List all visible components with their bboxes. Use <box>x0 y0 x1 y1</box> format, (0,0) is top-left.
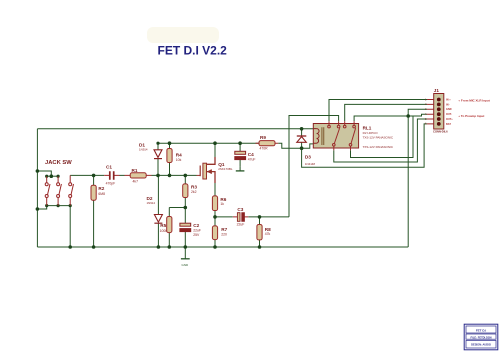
svg-text:R1: R1 <box>132 168 138 173</box>
wire relay B1 to J1 pin5 <box>334 119 427 162</box>
node D1 signal <box>156 174 160 178</box>
svg-text:FET D.I: FET D.I <box>476 328 486 332</box>
svg-text:2k2: 2k2 <box>191 190 197 194</box>
resistor R7 <box>212 226 227 240</box>
svg-text:C1: C1 <box>106 165 112 170</box>
wire R9 right step <box>278 143 313 148</box>
node R2 top <box>92 174 96 178</box>
wire ground symbol stub C2 <box>184 247 186 259</box>
node bus R2 <box>92 245 96 249</box>
svg-text:BAT: BAT <box>446 123 451 126</box>
relay levers <box>334 128 355 144</box>
svg-text:CONN-DIL6: CONN-DIL6 <box>433 130 448 134</box>
relay RL1 <box>313 121 394 150</box>
svg-text:DESIGN: AUDIO: DESIGN: AUDIO <box>471 343 491 347</box>
node R8 top <box>258 215 262 219</box>
wire relay T3 to J1 pin2 <box>345 104 427 121</box>
wire C3 to R8 node <box>248 216 289 218</box>
wire top outer rail <box>37 128 313 130</box>
node C4 rail <box>238 141 242 145</box>
svg-text:FILE: FETDI.DSN: FILE: FETDI.DSN <box>471 335 492 339</box>
wire relay B2 loop <box>351 116 414 158</box>
svg-text:470R: 470R <box>260 147 269 151</box>
wire switch bottom link <box>47 205 70 207</box>
svg-text:TXS-12V PANASONIC: TXS-12V PANASONIC <box>363 145 394 149</box>
svg-text:10k: 10k <box>176 158 182 162</box>
node D3 bottom <box>300 146 304 150</box>
svg-text:4k7: 4k7 <box>133 180 139 184</box>
node D3 top <box>300 127 304 131</box>
resistor R8 <box>257 225 271 240</box>
svg-text:R2: R2 <box>98 186 104 191</box>
svg-text:FET D.I V2.2: FET D.I V2.2 <box>158 43 228 57</box>
svg-text:R5: R5 <box>160 223 166 228</box>
node bus SW3 <box>68 245 72 249</box>
svg-text:GND: GND <box>182 263 190 267</box>
wire ground bus <box>37 246 408 248</box>
svg-text:22uF: 22uF <box>237 222 245 226</box>
svg-text:C4: C4 <box>248 152 254 157</box>
node bus R8 <box>258 245 262 249</box>
svg-text:TXS-12V PANASONIC: TXS-12V PANASONIC <box>363 135 394 139</box>
svg-text:D3: D3 <box>305 155 311 160</box>
transistor Q1 (JFET) <box>197 157 233 183</box>
wire Q1 source drop <box>214 183 216 196</box>
resistor R2 <box>91 185 105 200</box>
node Q1 drain rail <box>213 141 217 145</box>
svg-text:JACK SW: JACK SW <box>45 160 72 166</box>
svg-text:1k: 1k <box>220 202 224 206</box>
svg-text:25V: 25V <box>193 233 200 237</box>
resistor R4 <box>167 149 182 163</box>
ground symbol (C2 / main) <box>181 259 190 267</box>
J1 pin names <box>446 98 453 125</box>
svg-text:IN +: IN + <box>446 98 451 101</box>
connector J1 <box>425 88 453 134</box>
svg-text:IN -: IN - <box>446 103 450 106</box>
J1 pin stubs <box>427 100 434 124</box>
wire left vertical <box>36 129 38 247</box>
svg-text:RL1: RL1 <box>363 125 372 130</box>
wire output riser <box>289 116 339 217</box>
wire jack branch lower <box>37 206 46 209</box>
diode D1 <box>139 143 162 159</box>
svg-text:100k: 100k <box>160 229 168 233</box>
wire C4 leads <box>239 143 241 166</box>
node switch top tap <box>50 174 54 178</box>
wire R2 leads <box>93 175 95 247</box>
J1 pin pads <box>437 98 441 126</box>
wire signal segment A <box>70 174 104 176</box>
wire node R3-R5-C2 <box>169 207 185 209</box>
wire Q1 drain riser <box>214 143 216 157</box>
svg-text:OUT-: OUT- <box>446 113 452 116</box>
svg-text:+ From MIC XLR Input: + From MIC XLR Input <box>458 99 489 103</box>
node SW2 bottom <box>57 204 60 207</box>
node bus R5 <box>168 245 172 249</box>
relay coil <box>313 127 323 145</box>
node C3 tap <box>213 215 217 219</box>
wire switch top link <box>47 175 58 177</box>
node SW2 top <box>57 175 60 178</box>
svg-text:R7: R7 <box>221 227 227 232</box>
resistor R1 <box>125 168 152 184</box>
svg-text:C2: C2 <box>193 223 199 228</box>
resistor R9 <box>256 135 279 150</box>
wire jack branch upper <box>37 171 51 176</box>
wire R5 leads <box>168 208 170 248</box>
wire signal segment B <box>120 174 197 176</box>
title block <box>464 324 498 350</box>
wire C2 leads <box>184 208 186 248</box>
wire R4 leads <box>169 143 171 175</box>
capacitor C4 (polarized) <box>235 151 256 161</box>
svg-text:GND: GND <box>446 108 452 111</box>
svg-text:R9: R9 <box>260 135 266 140</box>
node bus D2 <box>157 245 161 249</box>
capacitor C1 <box>104 165 119 186</box>
wire C3 branch <box>215 216 233 218</box>
wire D2 leads <box>157 175 159 247</box>
node R3-R5-C2 <box>184 206 188 210</box>
wire inner rail <box>158 142 259 144</box>
node SW3 bottom <box>69 204 72 207</box>
wire D1 leads <box>157 143 159 175</box>
wire R3 leads <box>184 175 186 207</box>
svg-text:2SK170BL: 2SK170BL <box>218 167 233 171</box>
switch SW2 (jack) <box>57 176 62 205</box>
diode D2 <box>147 196 163 223</box>
node bus C2 <box>184 245 188 249</box>
resistor R6 <box>212 196 226 211</box>
svg-text:1N4148: 1N4148 <box>305 162 316 166</box>
node R4 signal <box>168 174 172 178</box>
capacitor C3 <box>233 207 249 226</box>
wire SW3 bottom to ground bus <box>69 206 71 247</box>
watermark (faint) <box>147 27 219 43</box>
wire relay T4 to J1 pin4 <box>354 114 427 121</box>
switch SW1 (jack) <box>45 176 50 205</box>
J1 pin numbers <box>425 98 427 125</box>
ground symbol (C4) <box>236 166 245 171</box>
svg-text:R8: R8 <box>265 227 271 232</box>
wire ground riser to J1 pin3 <box>408 109 427 247</box>
resistor R3 <box>183 184 198 198</box>
wire R8 leads <box>259 217 261 247</box>
svg-text:220: 220 <box>221 232 227 236</box>
svg-text:470pF: 470pF <box>106 181 116 185</box>
node jack upper branch <box>36 169 40 173</box>
svg-text:1N914: 1N914 <box>147 201 156 205</box>
node R4 rail <box>168 141 172 145</box>
resistor R5 <box>160 217 172 233</box>
relay contact pins <box>328 121 356 150</box>
capacitor C2 (polarized) <box>180 223 201 237</box>
svg-text:C3: C3 <box>237 207 243 212</box>
diode D3 <box>297 136 316 166</box>
svg-text:47uF: 47uF <box>248 158 256 162</box>
wire D3 leads <box>301 129 303 148</box>
svg-text:J1: J1 <box>434 88 440 93</box>
svg-text:+ To Preamp Input: + To Preamp Input <box>458 114 484 118</box>
svg-text:1N914: 1N914 <box>139 148 148 152</box>
node SW1 top <box>45 175 48 178</box>
svg-text:OUT+: OUT+ <box>446 118 453 121</box>
wire R6-R7 column <box>214 211 216 248</box>
wire coil drive to J1 pin6 <box>302 124 427 167</box>
switch SW3 (jack) <box>69 175 74 205</box>
node D1 rail <box>156 142 159 145</box>
node bus R7 <box>213 245 217 249</box>
node R3 signal <box>184 174 188 178</box>
svg-text:47k: 47k <box>265 232 271 236</box>
node SW1 bottom <box>45 204 48 207</box>
svg-text:6M8: 6M8 <box>98 192 105 196</box>
node jack lower branch <box>36 207 40 211</box>
node riser T4 line <box>406 114 410 118</box>
wire relay T1 to J1 pin1 <box>329 100 427 122</box>
